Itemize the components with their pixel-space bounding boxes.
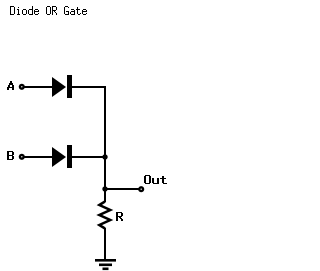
ground bar 3 [103,268,109,271]
junction at B [102,154,107,159]
wire B input [24,156,52,158]
wire to Out [104,188,139,190]
diode D2 anode triangle [52,147,66,167]
wire D2 to bus [71,156,106,158]
node A label [7,81,14,90]
node B label [7,151,14,160]
ground bar 1 [95,259,116,262]
title: Diode OR Gate [10,6,87,15]
wire D1 to bus [71,86,106,88]
junction at Out [102,186,107,191]
wire vertical bus [104,86,106,202]
diode D1 cathode bar [67,75,72,98]
node Out label [144,175,167,184]
ground bar 2 [99,264,112,267]
resistor R label [116,212,123,221]
wire resistor to ground [104,228,106,260]
diode D1 anode triangle [52,77,66,97]
resistor R zigzag [99,202,110,229]
diode D2 cathode bar [67,145,72,168]
terminal B [19,154,25,160]
wire A input [24,86,52,88]
terminal A [19,84,25,90]
terminal Out [138,186,144,192]
